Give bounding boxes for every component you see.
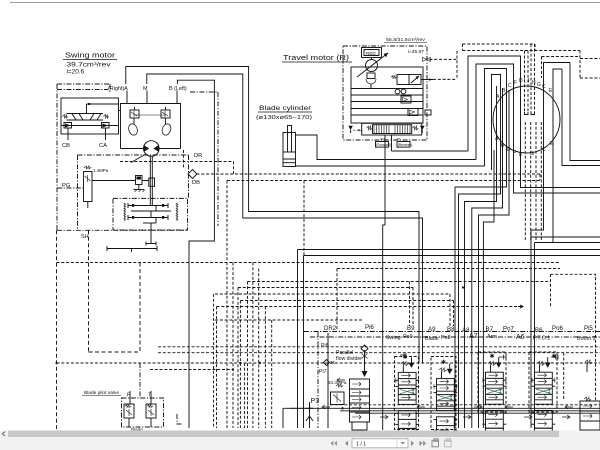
svg-text:Pi6: Pi6 <box>365 324 374 331</box>
long dashed pilot pair <box>340 174 540 181</box>
travel pump/motor symbol <box>357 53 388 77</box>
valve bank section labels row 2 <box>386 334 596 342</box>
svg-text:flow divider: flow divider <box>336 356 362 362</box>
svg-text:[Forward]: [Forward] <box>376 143 390 147</box>
horizontal scrollbar <box>0 431 600 438</box>
svg-text:C: C <box>508 83 512 89</box>
Boom2 dashed box <box>551 274 596 400</box>
page layout icon 2 <box>445 439 452 447</box>
svg-text:Po6: Po6 <box>552 325 563 332</box>
drain dashed line DR <box>120 150 340 181</box>
spool Boom2 partial <box>580 360 600 430</box>
svg-text:P2: P2 <box>381 137 385 141</box>
crossover line <box>135 114 166 116</box>
blade cylinder body <box>283 126 296 167</box>
svg-text:G: G <box>537 82 541 88</box>
swing port labels <box>108 86 187 92</box>
svg-text:34.3MPa: 34.3MPa <box>328 380 347 385</box>
spool PTO1 <box>532 357 556 446</box>
svg-text:1.4MPa: 1.4MPa <box>93 168 109 173</box>
travel assembly dash-dot boundary <box>343 46 427 140</box>
P3 inlet corner <box>283 408 314 428</box>
relief valve left <box>127 107 139 136</box>
svg-text:SH: SH <box>81 234 89 240</box>
gear teeth left <box>124 203 126 221</box>
inter-section connectors <box>322 378 573 419</box>
CA port line <box>105 128 107 140</box>
CB port line <box>67 128 69 140</box>
swing B port line <box>176 91 178 104</box>
junction dots <box>55 286 464 370</box>
dash-dot label line <box>57 89 108 91</box>
swing M port line <box>146 91 148 104</box>
dashed hose network top right <box>423 44 600 240</box>
hose loop 6 (right inner) <box>553 69 562 165</box>
PG pressure reducing valve <box>84 166 109 208</box>
rail junction dots <box>308 407 343 409</box>
output shaft <box>107 223 157 252</box>
svg-text:A6: A6 <box>516 334 525 341</box>
prev page button <box>345 441 348 446</box>
spool Arm <box>483 357 507 446</box>
bank top dash-dot boundary <box>304 332 600 338</box>
travel circuit inner box <box>351 67 423 123</box>
main pump supply lines <box>298 249 600 251</box>
travel outlet lines <box>385 135 468 225</box>
pilot dashed verticals <box>213 294 215 428</box>
svg-text:DR2: DR2 <box>324 325 337 332</box>
hose loop 1 (travel A) <box>468 56 600 188</box>
svg-text:RED: RED <box>366 51 376 56</box>
staircase left down <box>455 86 509 428</box>
svg-text:39.7cm³/rev: 39.7cm³/rev <box>67 62 112 69</box>
svg-text:(ø130xø65−170): (ø130xø65−170) <box>256 115 312 121</box>
valve bank port labels row 1 <box>324 324 593 334</box>
pressure line to switch <box>92 176 155 193</box>
load check h-symbols <box>400 353 558 360</box>
asterisks above spools <box>403 353 557 366</box>
blade cylinder base line <box>296 165 485 167</box>
secondary rail <box>340 410 600 412</box>
svg-text:C: C <box>542 147 546 153</box>
swivel port letters bottom <box>495 136 554 158</box>
swing hydraulic motor <box>144 141 160 157</box>
swivel port letters top <box>496 77 553 100</box>
travel brake valve <box>366 73 376 89</box>
travel motor title <box>282 37 427 62</box>
blade pilot valve box <box>122 398 164 427</box>
Reverse label <box>397 137 413 147</box>
hose loop 5 (right) <box>544 63 571 161</box>
shuttle valve <box>395 89 406 94</box>
planetary gear bars <box>128 203 171 223</box>
counterbalance check 2 <box>408 109 431 116</box>
svg-text:✱: ✱ <box>490 353 495 360</box>
parallel flow divider check <box>361 345 368 359</box>
svg-text:Pi7: Pi7 <box>319 369 327 375</box>
P3 check valve <box>306 402 313 428</box>
blade cylinder rod line <box>296 135 477 160</box>
trunk line from swing A <box>177 80 214 428</box>
pilot valve internals <box>124 391 156 432</box>
blade cylinder title <box>256 105 312 121</box>
DR2 drain line <box>327 333 329 428</box>
dashed drop pipes into swivel <box>524 51 526 112</box>
trunk line from swing B <box>147 74 423 363</box>
RED tag box <box>362 48 382 60</box>
svg-text:(Right)A: (Right)A <box>108 86 128 92</box>
svg-text:Blade cylinder: Blade cylinder <box>259 105 312 112</box>
PG dash-dot stub <box>57 187 84 189</box>
motor shaft <box>131 154 152 206</box>
blade pilot valve title <box>82 390 121 396</box>
svg-text:A7: A7 <box>469 333 478 340</box>
relief valve right <box>161 107 173 136</box>
svg-text:Pi8: Pi8 <box>321 343 329 349</box>
svg-text:Swing: Swing <box>386 335 401 341</box>
tertiary rail <box>355 412 600 414</box>
hose loop 2 (blade rod) <box>476 64 600 193</box>
hose loop 4 <box>492 75 501 171</box>
svg-text:DB: DB <box>192 180 200 186</box>
svg-text:D: D <box>519 78 523 84</box>
svg-text:P1: P1 <box>397 137 401 141</box>
swing motor title <box>63 51 117 76</box>
counterbalance check 1 <box>401 96 411 103</box>
bank dash-dot boundary vertical <box>317 332 319 428</box>
gear teeth right <box>176 203 178 221</box>
spool Swing <box>395 357 419 446</box>
spool section inlet (P3) <box>350 350 370 434</box>
pilot dashed mesh <box>57 181 600 429</box>
next page button <box>411 441 414 446</box>
top window border line <box>10 2 600 4</box>
svg-text:i=20.6: i=20.6 <box>67 69 85 76</box>
Pi7 check <box>324 360 335 366</box>
svg-text:B6: B6 <box>535 327 543 334</box>
travel control spools <box>348 123 424 135</box>
svg-text:55.8/31.5cm³/rev: 55.8/31.5cm³/rev <box>386 37 426 43</box>
svg-text:Travel motor (R): Travel motor (R) <box>283 55 349 62</box>
DB check diamond <box>188 170 197 179</box>
last page button <box>420 441 427 446</box>
dash-dot feeder to pilot valve <box>139 363 141 398</box>
svg-text:CA: CA <box>99 143 107 149</box>
svg-text:B (Left): B (Left) <box>169 86 187 92</box>
travel speed solenoid valve <box>391 75 433 85</box>
page layout icon 1 <box>432 439 439 447</box>
svg-text:DR: DR <box>194 153 202 159</box>
swivel joint circle <box>493 86 560 153</box>
svg-text:F: F <box>514 80 517 86</box>
bottom toolbar <box>0 437 600 450</box>
svg-text:Swing motor: Swing motor <box>65 51 116 60</box>
svg-text:✱: ✱ <box>441 359 446 366</box>
spool Blade <box>434 364 458 450</box>
main P rail <box>290 407 600 409</box>
hose loop 3 (blade base) <box>485 69 507 167</box>
swing motor ports box <box>121 104 181 149</box>
first page button <box>330 441 337 446</box>
dashed boxes around spools <box>395 352 558 430</box>
trunk line from swing M <box>126 67 419 364</box>
svg-text:CB: CB <box>62 143 70 149</box>
svg-text:1 / 1: 1 / 1 <box>356 442 366 448</box>
svg-text:Pi5: Pi5 <box>584 325 593 332</box>
svg-text:B9: B9 <box>407 325 415 332</box>
svg-text:C: C <box>542 84 546 90</box>
svg-text:H: H <box>532 80 536 86</box>
gear reducer box <box>113 198 188 230</box>
svg-text:Po8: Po8 <box>441 335 451 341</box>
swing assembly dash-dot boundary <box>57 84 218 230</box>
left boundary dashed <box>57 230 141 429</box>
relief valve 34.3MPa <box>331 384 345 405</box>
page number box <box>352 439 408 448</box>
svg-text:[Reverse]: [Reverse] <box>398 143 413 147</box>
swing pilot line to valve <box>87 103 121 113</box>
swing drain trunk <box>383 225 385 430</box>
pilot valve dash-dot stub <box>177 414 183 424</box>
staircase right down <box>531 63 600 429</box>
svg-text:i=45.97: i=45.97 <box>408 49 424 55</box>
inlet labels <box>319 343 362 385</box>
svg-text:P.T.O.1: P.T.O.1 <box>533 336 550 342</box>
Forward label <box>376 137 391 147</box>
svg-text:Blade pilot valve: Blade pilot valve <box>84 390 119 396</box>
swing A port line <box>126 91 128 104</box>
counterbalance valve block CB/CA <box>61 98 119 134</box>
